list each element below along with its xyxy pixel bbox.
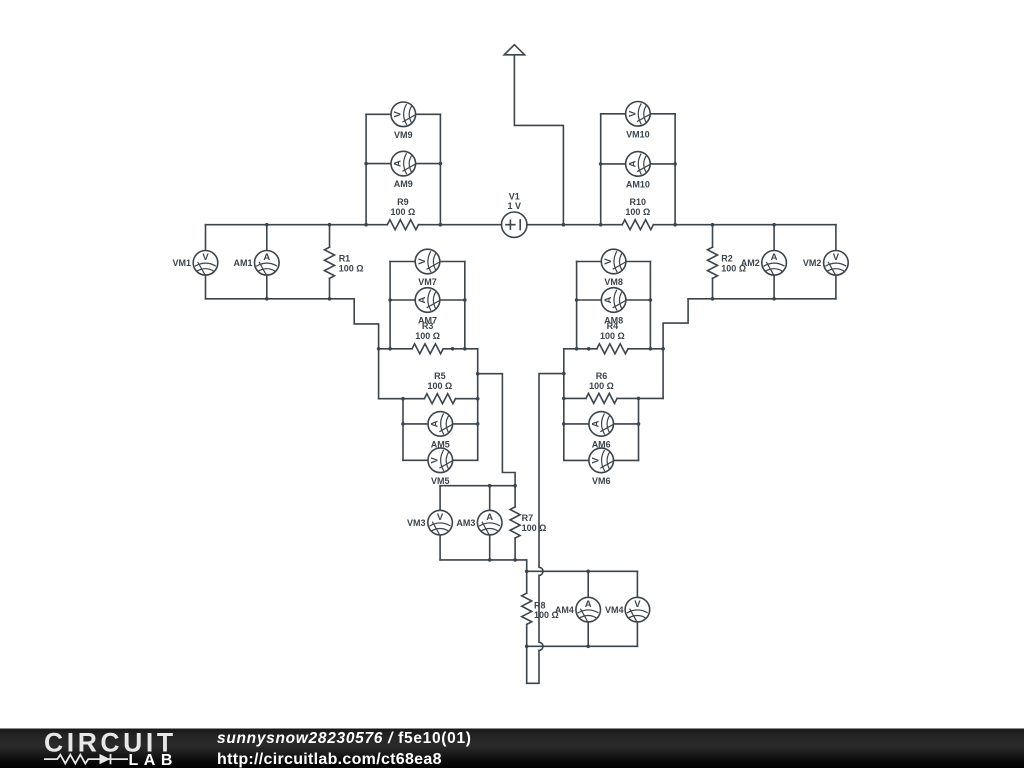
wire R2 bottom lead [712,278,714,298]
junction [562,422,566,426]
wire VM7 loop right vertical [464,262,466,349]
voltmeter VM2 [824,250,849,275]
ammeter AM10 [626,152,651,177]
wire AM8 right lead [626,299,651,301]
voltage source V1 [502,212,527,237]
wire VM6 left lead [564,459,589,461]
resistor R9 [387,220,418,230]
wire VM3 section top rail [440,485,515,487]
wire AM7 right lead [440,299,465,301]
ammeter AM9 [391,151,416,176]
voltmeter VM3 [428,510,453,535]
svg-text:AM2: AM2 [741,258,760,268]
voltmeter VM10 [626,102,651,127]
wire center-right feed with crossover hops [527,374,564,684]
svg-text:VM1: VM1 [172,258,191,268]
svg-text:AM3: AM3 [456,518,475,528]
voltmeter VM7 [415,249,440,274]
junction [364,223,368,227]
junction [439,162,443,166]
junction [265,297,269,301]
wire VM3 bottom lead [439,535,441,560]
wire R8 top lead [526,571,528,593]
wire AM10 left lead [601,163,626,165]
voltmeter VM1 [193,250,218,275]
svg-text:100 Ω: 100 Ω [522,523,547,533]
svg-text:VM8: VM8 [604,277,623,287]
svg-text:AM10: AM10 [626,180,650,190]
svg-text:100 Ω: 100 Ω [391,207,416,217]
wire AM8 left lead [577,299,602,301]
svg-text:sunnysnow28230576 / f5e10(01): sunnysnow28230576 / f5e10(01) [217,730,472,747]
junction [772,223,776,227]
wire R8 section bottom rail [527,645,638,647]
resistor R5 [424,394,455,404]
wire VM7 right lead [440,261,465,263]
resistor R7 [510,507,520,538]
wire R4 right lead [628,348,663,350]
logo resistor-diode squiggle [44,754,128,764]
wire left staircase [354,299,378,349]
wire R4 to R6 right vertical [662,349,664,399]
junction [525,645,529,649]
wire VM2 bottom lead [835,275,837,299]
junction [711,297,715,301]
ammeter AM7 [415,288,440,313]
wire R7 bottom lead [514,538,516,560]
ammeter AM8 [601,288,626,313]
wire R5 left lead [379,398,425,400]
junction [388,298,392,302]
svg-text:R7: R7 [522,513,534,523]
junction [377,347,381,351]
svg-text:R8: R8 [534,601,546,611]
wire R6 left lead [564,397,586,399]
svg-text:100 Ω: 100 Ω [600,331,625,341]
svg-text:AM9: AM9 [394,179,413,189]
wire VM10 right lead [650,113,675,115]
wire R3 to R5 left vertical [378,349,380,399]
svg-text:R4: R4 [607,321,619,331]
ammeter AM5 [428,412,453,437]
wire AM5 right lead [453,423,478,425]
wire R8 section top rail [527,570,638,572]
wire AM5 loop left vertical [402,399,404,461]
wire VM10 loop left vertical [600,114,602,225]
wire R1 bottom lead [329,278,331,298]
footer bar [0,729,1024,769]
wire AM7 left lead [390,299,415,301]
wire VM3 top lead [439,486,441,511]
junction [364,162,368,166]
wire R8 bottom lead [526,624,528,683]
wire R7 top lead [514,486,516,507]
junction [637,397,641,401]
wire R3 right lead [443,348,478,350]
svg-text:AM1: AM1 [233,258,252,268]
wire AM2 bottom lead [773,275,775,299]
wire VM4 top lead [636,571,638,597]
logo diode triangle [100,754,111,764]
voltmeter VM6 [589,448,614,473]
junction [488,484,492,488]
junction [401,397,405,401]
svg-text:VM6: VM6 [592,476,611,486]
junction [673,223,677,227]
svg-text:1 V: 1 V [508,201,522,211]
resistor R1 [325,247,335,278]
junction [772,297,776,301]
svg-text:100 Ω: 100 Ω [625,207,650,217]
wire top bus segment 3 [527,224,622,226]
wire AM4 top lead [587,571,589,597]
svg-text:VM5: VM5 [431,476,450,486]
svg-text:R6: R6 [596,371,608,381]
junction [661,347,665,351]
resistor R2 [708,247,718,278]
wire VM1 top lead [205,225,207,251]
wire AM1 top lead [266,225,268,251]
junction [562,372,566,376]
wire VM8 right lead [626,261,651,263]
voltmeter VM5 [428,448,453,473]
wire AM6 left lead [564,423,589,425]
wire VM10 left lead [601,113,626,115]
junction [401,422,405,426]
svg-text:VM2: VM2 [803,258,822,268]
wire from node flag to top bus [514,55,563,225]
wire drop to R8 section [526,560,528,571]
resistor R3 [412,344,443,354]
resistor R10 [622,220,653,230]
svg-text:R3: R3 [422,321,434,331]
junction [388,347,392,351]
svg-text:LAB: LAB [129,752,178,768]
junction [463,298,467,302]
ammeter AM2 [762,250,787,275]
junction [587,347,591,351]
svg-text:VM7: VM7 [418,277,437,287]
junction [575,347,579,351]
wire VM4 bottom lead [636,622,638,646]
junction [637,422,641,426]
svg-text:AM4: AM4 [555,605,574,615]
wire VM7 loop left vertical [389,262,391,349]
node flag (antenna symbol) [504,45,524,55]
junction [586,570,590,574]
wire VM8 left lead [577,261,602,263]
svg-text:VM10: VM10 [626,129,650,139]
svg-text:100 Ω: 100 Ω [415,331,440,341]
junction [673,162,677,166]
svg-text:http://circuitlab.com/ct68ea8: http://circuitlab.com/ct68ea8 [217,751,442,768]
wire VM5 right lead [453,459,478,461]
junction [451,347,455,351]
junction [599,223,603,227]
junction [463,347,467,351]
wire AM10 right lead [650,163,675,165]
svg-text:VM9: VM9 [394,130,413,140]
svg-text:100 Ω: 100 Ω [589,381,614,391]
svg-text:V1: V1 [509,191,520,201]
junction [476,372,480,376]
wire AM2 top lead [773,225,775,251]
wire VM9 right lead [416,113,441,115]
svg-text:100 Ω: 100 Ω [339,263,364,273]
svg-text:VM4: VM4 [605,605,624,615]
svg-text:VM3: VM3 [407,518,426,528]
junction [562,397,566,401]
junction [513,484,517,488]
junction [476,397,480,401]
svg-text:100 Ω: 100 Ω [428,381,453,391]
resistor R8 [522,593,532,624]
voltmeter VM4 [625,597,650,622]
wire main vertical left of R6 [563,349,565,461]
wire AM9 left lead [366,163,391,165]
wire AM9 right lead [416,163,441,165]
svg-text:R5: R5 [434,371,446,381]
junction [328,223,332,227]
wire R6 right lead [617,397,663,399]
wire right staircase [663,299,688,349]
junction [575,298,579,302]
wire center-left feed [478,374,515,486]
junction [711,223,715,227]
wire VM9 loop right vertical [439,114,441,224]
wire VM3 section bottom rail [440,559,527,561]
ammeter AM6 [589,412,614,437]
wire R1 top lead [329,225,331,248]
wire VM6 right lead [614,459,639,461]
junction [513,558,517,562]
junction [488,558,492,562]
junction [476,422,480,426]
junction [599,162,603,166]
junction [265,223,269,227]
wire VM5 left lead [403,459,428,461]
wire main vertical right of R5 [477,349,479,461]
wire VM9 left lead [366,113,391,115]
wire top bus segment 2 [419,224,502,226]
wire R5 right lead [456,398,478,400]
wire left bottom rail [206,298,355,300]
ammeter AM1 [254,250,279,275]
resistor R4 [597,344,628,354]
svg-text:R9: R9 [397,197,409,207]
wire right bottom rail [688,298,836,300]
junction [525,570,529,574]
wire VM8 loop left vertical [576,262,578,349]
wire top bus segment 4 [653,224,836,226]
wire top bus segment 1 [206,224,388,226]
wire VM10 loop right vertical [674,114,676,225]
svg-text:R10: R10 [630,197,647,207]
junction [562,223,566,227]
wire VM8 loop right vertical [649,262,651,349]
wire VM7 left lead [390,261,415,263]
wire AM3 bottom lead [489,535,491,560]
wire AM4 bottom lead [587,622,589,646]
ammeter AM4 [576,597,601,622]
junction [328,297,332,301]
wire R2 top lead [712,225,714,248]
svg-text:R2: R2 [721,254,733,264]
wire AM3 top lead [489,486,491,511]
wire AM6 loop right vertical [638,398,640,460]
junction [439,223,443,227]
wire VM1 bottom lead [205,275,207,299]
voltmeter VM9 [391,102,416,127]
wire VM9 loop left vertical [365,114,367,224]
junction [649,298,653,302]
wire AM1 bottom lead [266,275,268,299]
junction [649,347,653,351]
wire AM5 left lead [403,423,428,425]
wire VM2 top lead [835,225,837,251]
junction [586,645,590,649]
voltmeter VM8 [601,249,626,274]
resistor R6 [586,393,617,403]
wire AM6 right lead [614,423,639,425]
svg-text:R1: R1 [339,254,351,264]
wire R4 left lead [564,348,597,350]
ammeter AM3 [477,510,502,535]
wire R3 left lead [379,348,412,350]
